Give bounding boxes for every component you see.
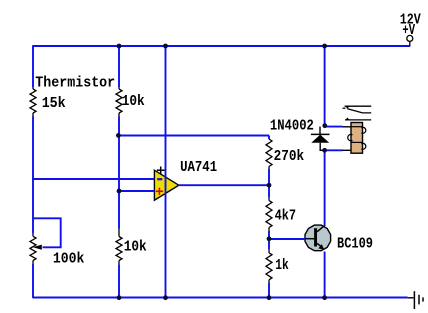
- node diode cathode junction: [322, 123, 327, 128]
- svg-text:1N4002: 1N4002: [270, 118, 314, 134]
- relay contact moving lever: [348, 109, 372, 113]
- svg-text:BC109: BC109: [337, 237, 373, 253]
- op-amp inverting input minus mark: [157, 178, 162, 180]
- relay coil loop left: [348, 134, 353, 140]
- node 4k7 / 1k / base: [267, 236, 272, 241]
- wire pot wiper loop: [33, 218, 61, 247]
- wire rail3 opamp supply (full height): [165, 46, 167, 298]
- terminal +V (12V supply): [407, 35, 413, 46]
- svg-text:1k: 1k: [275, 258, 289, 274]
- wire diode bottom to relay: [325, 149, 343, 151]
- resistor R2 10k (upper): [116, 89, 122, 113]
- wire bottom 0V rail: [33, 297, 408, 299]
- node bottom rail x165: [163, 295, 168, 300]
- relay coil loop right upper: [361, 127, 365, 133]
- potentiometer wiper arrow: [33, 245, 42, 250]
- wire left rail middle: [32, 117, 34, 234]
- wire diode top to relay: [325, 126, 343, 128]
- diode D1 1N4002 (flyback): [311, 127, 330, 151]
- thermistor R1 15k: [30, 89, 36, 113]
- relay contact fixed lower (NO): [345, 118, 371, 120]
- op-amp U1 UA741 triangle: [154, 170, 178, 200]
- resistor R6 4k7: [268, 185, 270, 197]
- node top rail x165: [163, 44, 168, 49]
- node bottom rail 1k: [267, 295, 272, 300]
- resistor R4 10k (lower): [116, 237, 122, 261]
- wire op-amp output: [178, 184, 269, 186]
- ground / battery negative symbol: [408, 291, 423, 309]
- relay coil loop right lower: [361, 143, 365, 149]
- wire collector column: [324, 150, 326, 226]
- svg-text:100k: 100k: [53, 251, 85, 267]
- op-amp V+ plus mark: [157, 167, 165, 175]
- svg-text:4k7: 4k7: [275, 209, 297, 225]
- wire base from 4k7/1k node: [269, 238, 305, 240]
- lead diode bottom to relay (black): [343, 149, 352, 151]
- svg-text:15k: 15k: [42, 96, 66, 112]
- wire non-inverting input from 10k divider: [119, 190, 155, 192]
- wire rail2 upper: [118, 46, 120, 87]
- wire rail2 lower: [118, 264, 120, 298]
- wire left rail lower: [32, 264, 34, 298]
- node op-amp output / 270k / 4k7: [267, 183, 272, 188]
- node bottom rail x119: [117, 295, 122, 300]
- relay RLA coil body: [351, 123, 363, 154]
- node diode anode junction: [322, 148, 327, 153]
- wire left rail upper (to thermistor): [32, 45, 34, 87]
- svg-text:Thermistor: Thermistor: [35, 75, 115, 91]
- svg-text:+V: +V: [402, 23, 415, 39]
- wire top +12V rail: [33, 45, 410, 47]
- wire feedback from divider node to 270k: [119, 135, 269, 137]
- node divider-feedback junction: [116, 133, 121, 138]
- op-amp non-inverting input plus mark (red): [156, 188, 163, 195]
- node top rail x119: [117, 44, 122, 49]
- wire inverting input from thermistor divider: [32, 178, 154, 180]
- relay contact fixed upper (NC): [343, 106, 372, 109]
- svg-text:10k: 10k: [124, 239, 147, 255]
- svg-text:270k: 270k: [274, 149, 305, 165]
- svg-text:UA741: UA741: [180, 160, 217, 176]
- wire diode column from top rail: [324, 46, 326, 127]
- node top rail diode column: [322, 44, 327, 49]
- resistor R3 270k: [268, 136, 270, 140]
- node non-inverting tap: [117, 189, 122, 194]
- node bottom rail emitter: [322, 295, 327, 300]
- wire rail2 middle: [118, 117, 120, 229]
- transistor Q1 BC109: [304, 225, 331, 251]
- svg-text:10k: 10k: [122, 94, 145, 110]
- potentiometer R5 100k: [30, 236, 36, 260]
- lead diode top to relay (black): [343, 126, 352, 128]
- resistor R7 1k: [268, 239, 270, 249]
- wire emitter column: [324, 252, 326, 299]
